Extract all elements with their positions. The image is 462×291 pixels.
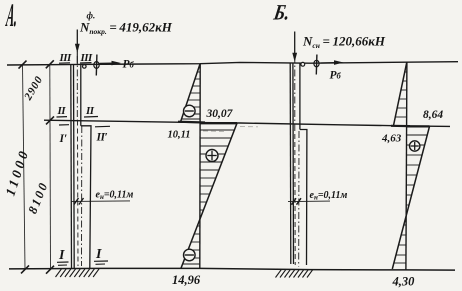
- hinge circle B: [301, 62, 305, 66]
- moment diagram A hatch lower: [183, 130, 235, 264]
- column B upper axis dash-dot: [294, 56, 296, 126]
- e tick 2 B: [297, 198, 302, 205]
- diagram B upper thick base: [391, 125, 410, 127]
- column A upper axis continuation (dashed): [77, 121, 80, 267]
- svg-text:14,96: 14,96: [172, 273, 201, 287]
- column A step: [81, 126, 91, 268]
- e tick 2: [79, 198, 84, 205]
- tick top-left: [19, 61, 27, 69]
- moment diagram A hatch upper: [182, 72, 201, 119]
- svg-text:10,11: 10,11: [168, 130, 191, 141]
- section II' right below: [95, 125, 110, 128]
- R_b arrow B: [321, 62, 336, 64]
- diagram B upper diagonal: [393, 62, 406, 126]
- column A upper axis (dash-dot): [76, 56, 78, 121]
- tick bottom-inner: [46, 266, 54, 274]
- diagram A lower diagonal: [181, 123, 237, 268]
- diagram B lower top edge thick: [407, 125, 430, 127]
- column A right edge upper: [80, 65, 82, 126]
- dim text 8100: [25, 179, 51, 216]
- svg-text:30,07: 30,07: [206, 108, 234, 120]
- dimension line 11000: [23, 65, 26, 270]
- diagram B axis: [406, 62, 407, 269]
- ground hatch A: [56, 269, 100, 277]
- phi symbol B: [315, 55, 318, 75]
- svg-text:II: II: [85, 105, 95, 117]
- label A: [4, 0, 20, 34]
- svg-text:I′: I′: [59, 133, 68, 145]
- svg-text:ф.: ф.: [87, 11, 96, 21]
- svg-text:II: II: [57, 105, 67, 117]
- label B: [271, 1, 292, 25]
- ground line: [9, 268, 455, 270]
- dim text 2900: [22, 74, 46, 103]
- hinge circle A: [83, 65, 87, 69]
- plus sign B: [410, 141, 420, 151]
- eccentricity line A: [71, 200, 130, 203]
- column B left edge (double): [289, 63, 292, 264]
- minus sign bottom A: [184, 249, 196, 261]
- column B upper axis continuation dashed: [294, 126, 296, 265]
- svg-text:Рб: Рб: [123, 59, 135, 71]
- svg-text:I: I: [58, 248, 65, 263]
- tick top-inner: [46, 60, 54, 68]
- svg-text:III: III: [59, 52, 73, 64]
- force N A arrow: [76, 30, 78, 46]
- diagram A upper thick base: [178, 121, 205, 124]
- minus sign upper A: [184, 105, 196, 117]
- svg-text:II′: II′: [96, 132, 108, 144]
- section I' left below: [59, 124, 69, 126]
- svg-text:I: I: [95, 247, 102, 262]
- column B step: [300, 130, 307, 266]
- column B right edge upper: [299, 63, 301, 130]
- top beam line: [7, 62, 458, 65]
- svg-text:8,64: 8,64: [423, 109, 443, 121]
- tick bottom-left: [21, 265, 29, 273]
- e tick 1 B: [292, 198, 297, 205]
- diagram A axis: [199, 64, 201, 269]
- column B lower axis dash-dot: [298, 131, 300, 267]
- diagram B lower diagonal: [392, 126, 429, 269]
- phi symbol A: [95, 55, 98, 76]
- dim text 11000: [3, 146, 32, 197]
- svg-text:Рб: Рб: [330, 70, 342, 82]
- diagram A lower top edge thick: [200, 122, 237, 124]
- ground hatch B: [276, 269, 314, 277]
- svg-text:4,30: 4,30: [392, 275, 416, 289]
- force N B arrow: [294, 32, 296, 54]
- column A left edge (double stroke): [70, 65, 73, 269]
- second (step) line: [44, 120, 450, 126]
- faint dashed continuation: [203, 130, 225, 133]
- svg-text:4,63: 4,63: [381, 133, 402, 145]
- moment diagram B hatch lower: [394, 135, 427, 263]
- moment diagram B hatch upper: [395, 72, 407, 117]
- dimension line 2900/8100: [49, 64, 52, 269]
- diagram A upper diagonal: [181, 64, 201, 122]
- e tick 1: [74, 198, 79, 205]
- column A lower axis (dash-dot): [81, 126, 83, 266]
- eccentricity line B: [288, 200, 330, 203]
- tick middle: [46, 116, 54, 124]
- plus sign A: [206, 150, 218, 162]
- R_b arrow A: [100, 62, 114, 64]
